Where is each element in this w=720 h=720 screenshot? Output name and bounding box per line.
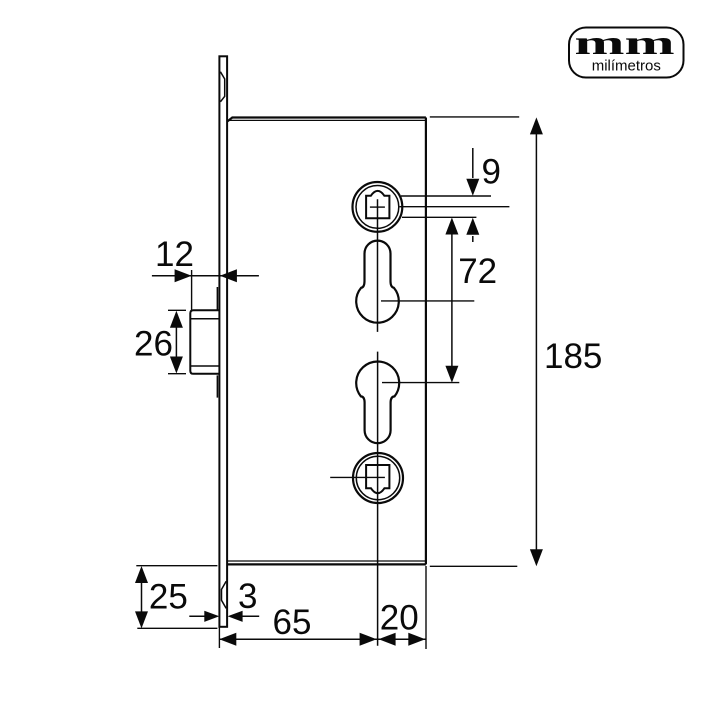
svg-text:20: 20 — [380, 599, 419, 638]
svg-text:milímetros: milímetros — [592, 57, 661, 74]
svg-text:26: 26 — [134, 325, 173, 364]
svg-text:72: 72 — [458, 252, 497, 291]
svg-text:185: 185 — [544, 337, 602, 376]
svg-text:3: 3 — [238, 577, 257, 616]
svg-text:mm: mm — [574, 23, 674, 61]
svg-text:9: 9 — [482, 153, 501, 192]
svg-text:65: 65 — [273, 603, 312, 642]
svg-text:12: 12 — [155, 235, 194, 274]
svg-text:25: 25 — [149, 578, 188, 617]
